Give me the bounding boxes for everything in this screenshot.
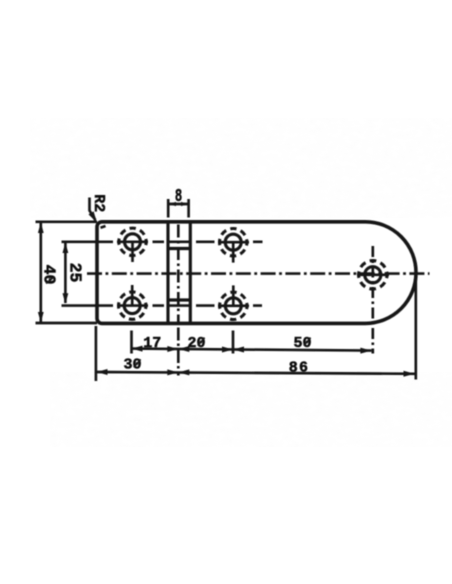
faint scan noise top band	[30, 118, 452, 218]
row1 arrows at 178	[167, 346, 178, 352]
dim row2 line	[97, 372, 415, 374]
dim 8 extension line right	[187, 199, 190, 218]
row2 arrows at 178	[167, 369, 178, 375]
pin centerline extension below part	[177, 328, 180, 376]
extension line right end	[414, 276, 417, 380]
solid centerline segment through hole top-right	[218, 241, 249, 244]
dim 8 dimension line	[168, 203, 190, 206]
row1 arrow at 371.4 right	[360, 348, 371, 354]
dim 40 extension top	[36, 220, 98, 223]
dim 40 line	[39, 223, 42, 323]
svg-text:30: 30	[123, 356, 141, 373]
hinge outline	[97, 222, 416, 324]
hole top-left dashed circle	[119, 228, 146, 255]
R2 leader line	[90, 198, 96, 221]
hole bottom-left vertical mark	[131, 285, 134, 306]
row2 arrow at 418.5 right	[404, 371, 415, 377]
hinge barrel left line	[166, 222, 169, 324]
slash of zero in 40	[46, 277, 55, 284]
hole bottom-right dashed circle	[220, 292, 247, 319]
row2 arrow at 96.5 left	[97, 369, 108, 375]
solid centerline segment through hole top-left	[117, 240, 148, 243]
dim 25 arrow up	[63, 242, 69, 253]
pin centerline	[177, 225, 180, 325]
hole bottom-right vertical mark	[232, 285, 235, 305]
slash of zero in 20	[198, 338, 205, 346]
svg-text:R2: R2	[90, 194, 107, 212]
dim row1 line	[132, 349, 372, 351]
hole bottom-left solid circle	[124, 298, 140, 314]
row1 arrows at 233	[222, 347, 233, 353]
svg-text:8: 8	[175, 186, 182, 207]
hole top-left solid circle	[125, 234, 141, 250]
solid centerline segment through hole bottom-right	[218, 304, 249, 307]
hole top-right dashed circle	[220, 229, 247, 256]
svg-text:20: 20	[187, 335, 205, 352]
right hole vertical centerline and extension	[371, 246, 374, 354]
extension line left edge	[95, 326, 98, 381]
R2 leader arrowhead	[89, 212, 96, 221]
hole top-right vertical mark	[232, 242, 235, 262]
dim 40 extension bottom	[36, 322, 98, 325]
extension line holes-right column	[232, 331, 235, 354]
dim 25 arrow down	[63, 293, 69, 304]
solid centerline segment through right hole	[357, 273, 389, 276]
solid centerline segment through hole bottom-left	[117, 304, 148, 307]
hole top-left vertical mark	[131, 242, 134, 262]
svg-text:25: 25	[65, 263, 84, 283]
dim 8 arrow left	[168, 202, 176, 206]
extension line holes-left column	[130, 331, 133, 354]
dim 8 extension line left	[167, 199, 170, 218]
hole bottom-left dashed circle	[119, 292, 146, 319]
top hole row centerline segments	[62, 240, 263, 243]
slash of zero in 30	[134, 359, 141, 367]
dim 40 arrow up	[38, 222, 44, 233]
dim 40 arrow down	[38, 312, 44, 323]
hole top-right solid circle	[225, 234, 241, 250]
bottom hole row centerline segments	[62, 304, 263, 307]
right hole solid circle	[365, 267, 381, 283]
row1 arrow at 131.5 left	[132, 346, 143, 352]
knuckle line upper	[167, 247, 191, 250]
svg-text:50: 50	[293, 335, 311, 352]
stray scan dash	[101, 226, 106, 228]
knuckle line lower	[167, 298, 191, 301]
faint scan noise bottom band	[50, 372, 452, 447]
svg-text:17: 17	[143, 335, 161, 352]
dim 8 arrow right	[181, 202, 189, 206]
hinge barrel right line	[189, 222, 192, 324]
right hole dashed circle	[359, 261, 387, 289]
hole bottom-right solid circle	[225, 298, 241, 314]
dim 25 line	[64, 243, 67, 303]
main horizontal centerline	[87, 272, 430, 275]
barrel crossing solid at hole rows	[167, 240, 191, 243]
slash of zero in 50	[304, 338, 311, 346]
svg-text:86: 86	[289, 359, 309, 376]
